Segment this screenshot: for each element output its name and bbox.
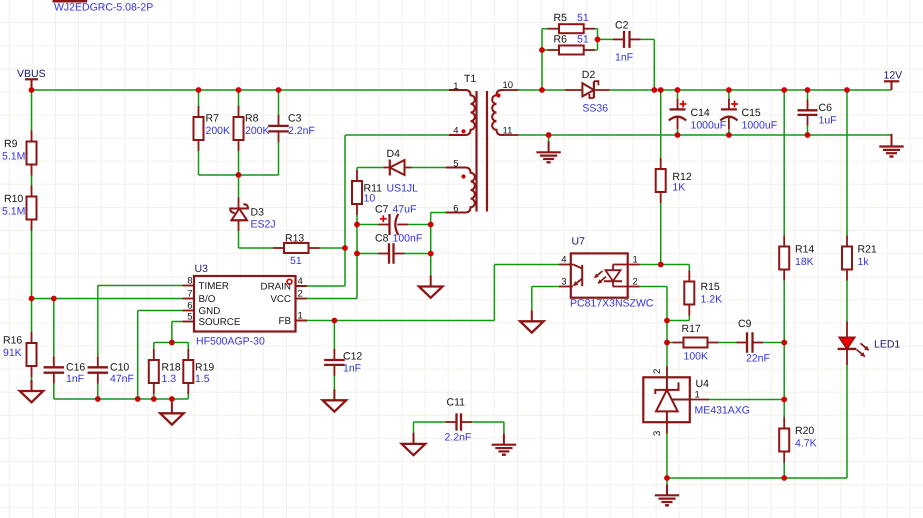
svg-text:R20: R20: [795, 425, 814, 437]
svg-text:R19: R19: [195, 362, 214, 374]
svg-text:C16: C16: [66, 362, 85, 374]
svg-text:C7: C7: [375, 204, 389, 216]
svg-text:1uF: 1uF: [819, 115, 837, 127]
svg-text:7: 7: [187, 289, 192, 300]
svg-text:C15: C15: [742, 107, 761, 119]
svg-text:12V: 12V: [884, 70, 903, 82]
svg-text:1nF: 1nF: [615, 52, 633, 64]
svg-text:GND: GND: [199, 306, 221, 317]
svg-text:2.2nF: 2.2nF: [445, 432, 472, 444]
svg-text:C14: C14: [691, 107, 710, 119]
svg-text:PC817X3NSZWC: PC817X3NSZWC: [570, 298, 654, 310]
svg-text:3: 3: [652, 431, 663, 436]
svg-text:51: 51: [577, 34, 589, 46]
svg-text:1000uF: 1000uF: [742, 120, 778, 132]
svg-text:1nF: 1nF: [343, 363, 361, 375]
svg-text:6: 6: [187, 301, 192, 312]
svg-text:R15: R15: [701, 281, 720, 293]
svg-text:D3: D3: [251, 207, 265, 219]
svg-text:51: 51: [577, 12, 589, 24]
svg-text:R16: R16: [3, 335, 22, 347]
svg-text:200K: 200K: [245, 125, 270, 137]
svg-text:1K: 1K: [672, 182, 685, 194]
svg-text:100nF: 100nF: [393, 233, 423, 245]
svg-text:C8: C8: [375, 233, 389, 245]
svg-text:2.2nF: 2.2nF: [288, 125, 315, 137]
svg-text:VBUS: VBUS: [17, 68, 46, 80]
svg-text:C11: C11: [447, 397, 466, 409]
svg-text:R7: R7: [206, 113, 220, 125]
svg-text:R17: R17: [682, 323, 701, 335]
svg-text:4.7K: 4.7K: [795, 438, 817, 450]
svg-text:US1JL: US1JL: [387, 183, 419, 195]
svg-text:R18: R18: [162, 362, 181, 374]
svg-text:B/O: B/O: [199, 294, 216, 305]
svg-text:R13: R13: [285, 233, 304, 245]
svg-text:C6: C6: [819, 102, 833, 114]
svg-text:R9: R9: [4, 138, 18, 150]
svg-text:91K: 91K: [3, 347, 22, 359]
svg-text:WJ2EDGRC-5.08-2P: WJ2EDGRC-5.08-2P: [54, 1, 153, 13]
svg-text:5.1M: 5.1M: [2, 206, 25, 218]
svg-text:R8: R8: [245, 113, 259, 125]
svg-text:200K: 200K: [206, 125, 231, 137]
svg-text:SOURCE: SOURCE: [199, 317, 241, 328]
svg-text:47nF: 47nF: [110, 373, 134, 385]
svg-text:C3: C3: [288, 113, 302, 125]
svg-text:1000uF: 1000uF: [691, 120, 727, 132]
svg-text:R5: R5: [554, 12, 568, 24]
svg-text:U7: U7: [572, 236, 586, 248]
svg-text:T1: T1: [464, 73, 476, 85]
svg-text:1: 1: [453, 81, 458, 92]
svg-text:FB: FB: [278, 316, 291, 327]
svg-text:100K: 100K: [684, 351, 709, 363]
svg-text:DRAIN: DRAIN: [261, 282, 291, 293]
svg-text:47uF: 47uF: [393, 204, 417, 216]
svg-text:5.1M: 5.1M: [2, 151, 25, 163]
svg-text:18K: 18K: [795, 256, 814, 268]
svg-text:R21: R21: [858, 244, 877, 256]
svg-text:SS36: SS36: [582, 103, 608, 115]
svg-text:5: 5: [453, 159, 458, 170]
svg-text:R14: R14: [795, 244, 814, 256]
svg-text:1.5: 1.5: [195, 373, 210, 385]
svg-text:1nF: 1nF: [66, 373, 84, 385]
svg-text:2: 2: [652, 369, 663, 374]
svg-text:8: 8: [187, 276, 192, 287]
svg-text:1.3: 1.3: [162, 373, 177, 385]
svg-text:R10: R10: [4, 193, 23, 205]
svg-text:5: 5: [187, 312, 192, 323]
svg-text:HF500AGP-30: HF500AGP-30: [196, 336, 265, 348]
svg-text:R6: R6: [554, 34, 568, 46]
svg-text:C10: C10: [110, 362, 129, 374]
svg-text:C2: C2: [615, 20, 629, 32]
svg-text:1.2K: 1.2K: [701, 294, 723, 306]
svg-text:C9: C9: [738, 318, 752, 330]
svg-text:U4: U4: [696, 378, 710, 390]
svg-text:22nF: 22nF: [746, 353, 770, 365]
svg-text:ES2J: ES2J: [251, 219, 276, 231]
svg-text:D2: D2: [582, 69, 596, 81]
svg-text:LED1: LED1: [874, 339, 900, 351]
svg-text:51: 51: [290, 255, 302, 267]
svg-text:TIMER: TIMER: [199, 281, 229, 292]
svg-text:ME431AXG: ME431AXG: [695, 405, 750, 417]
svg-text:VCC: VCC: [270, 294, 291, 305]
svg-text:6: 6: [453, 204, 458, 215]
svg-text:1k: 1k: [858, 256, 870, 268]
svg-text:10: 10: [364, 193, 376, 205]
svg-text:D4: D4: [387, 148, 401, 160]
svg-text:4: 4: [453, 126, 458, 137]
svg-text:C12: C12: [343, 351, 362, 363]
svg-text:U3: U3: [195, 263, 209, 275]
